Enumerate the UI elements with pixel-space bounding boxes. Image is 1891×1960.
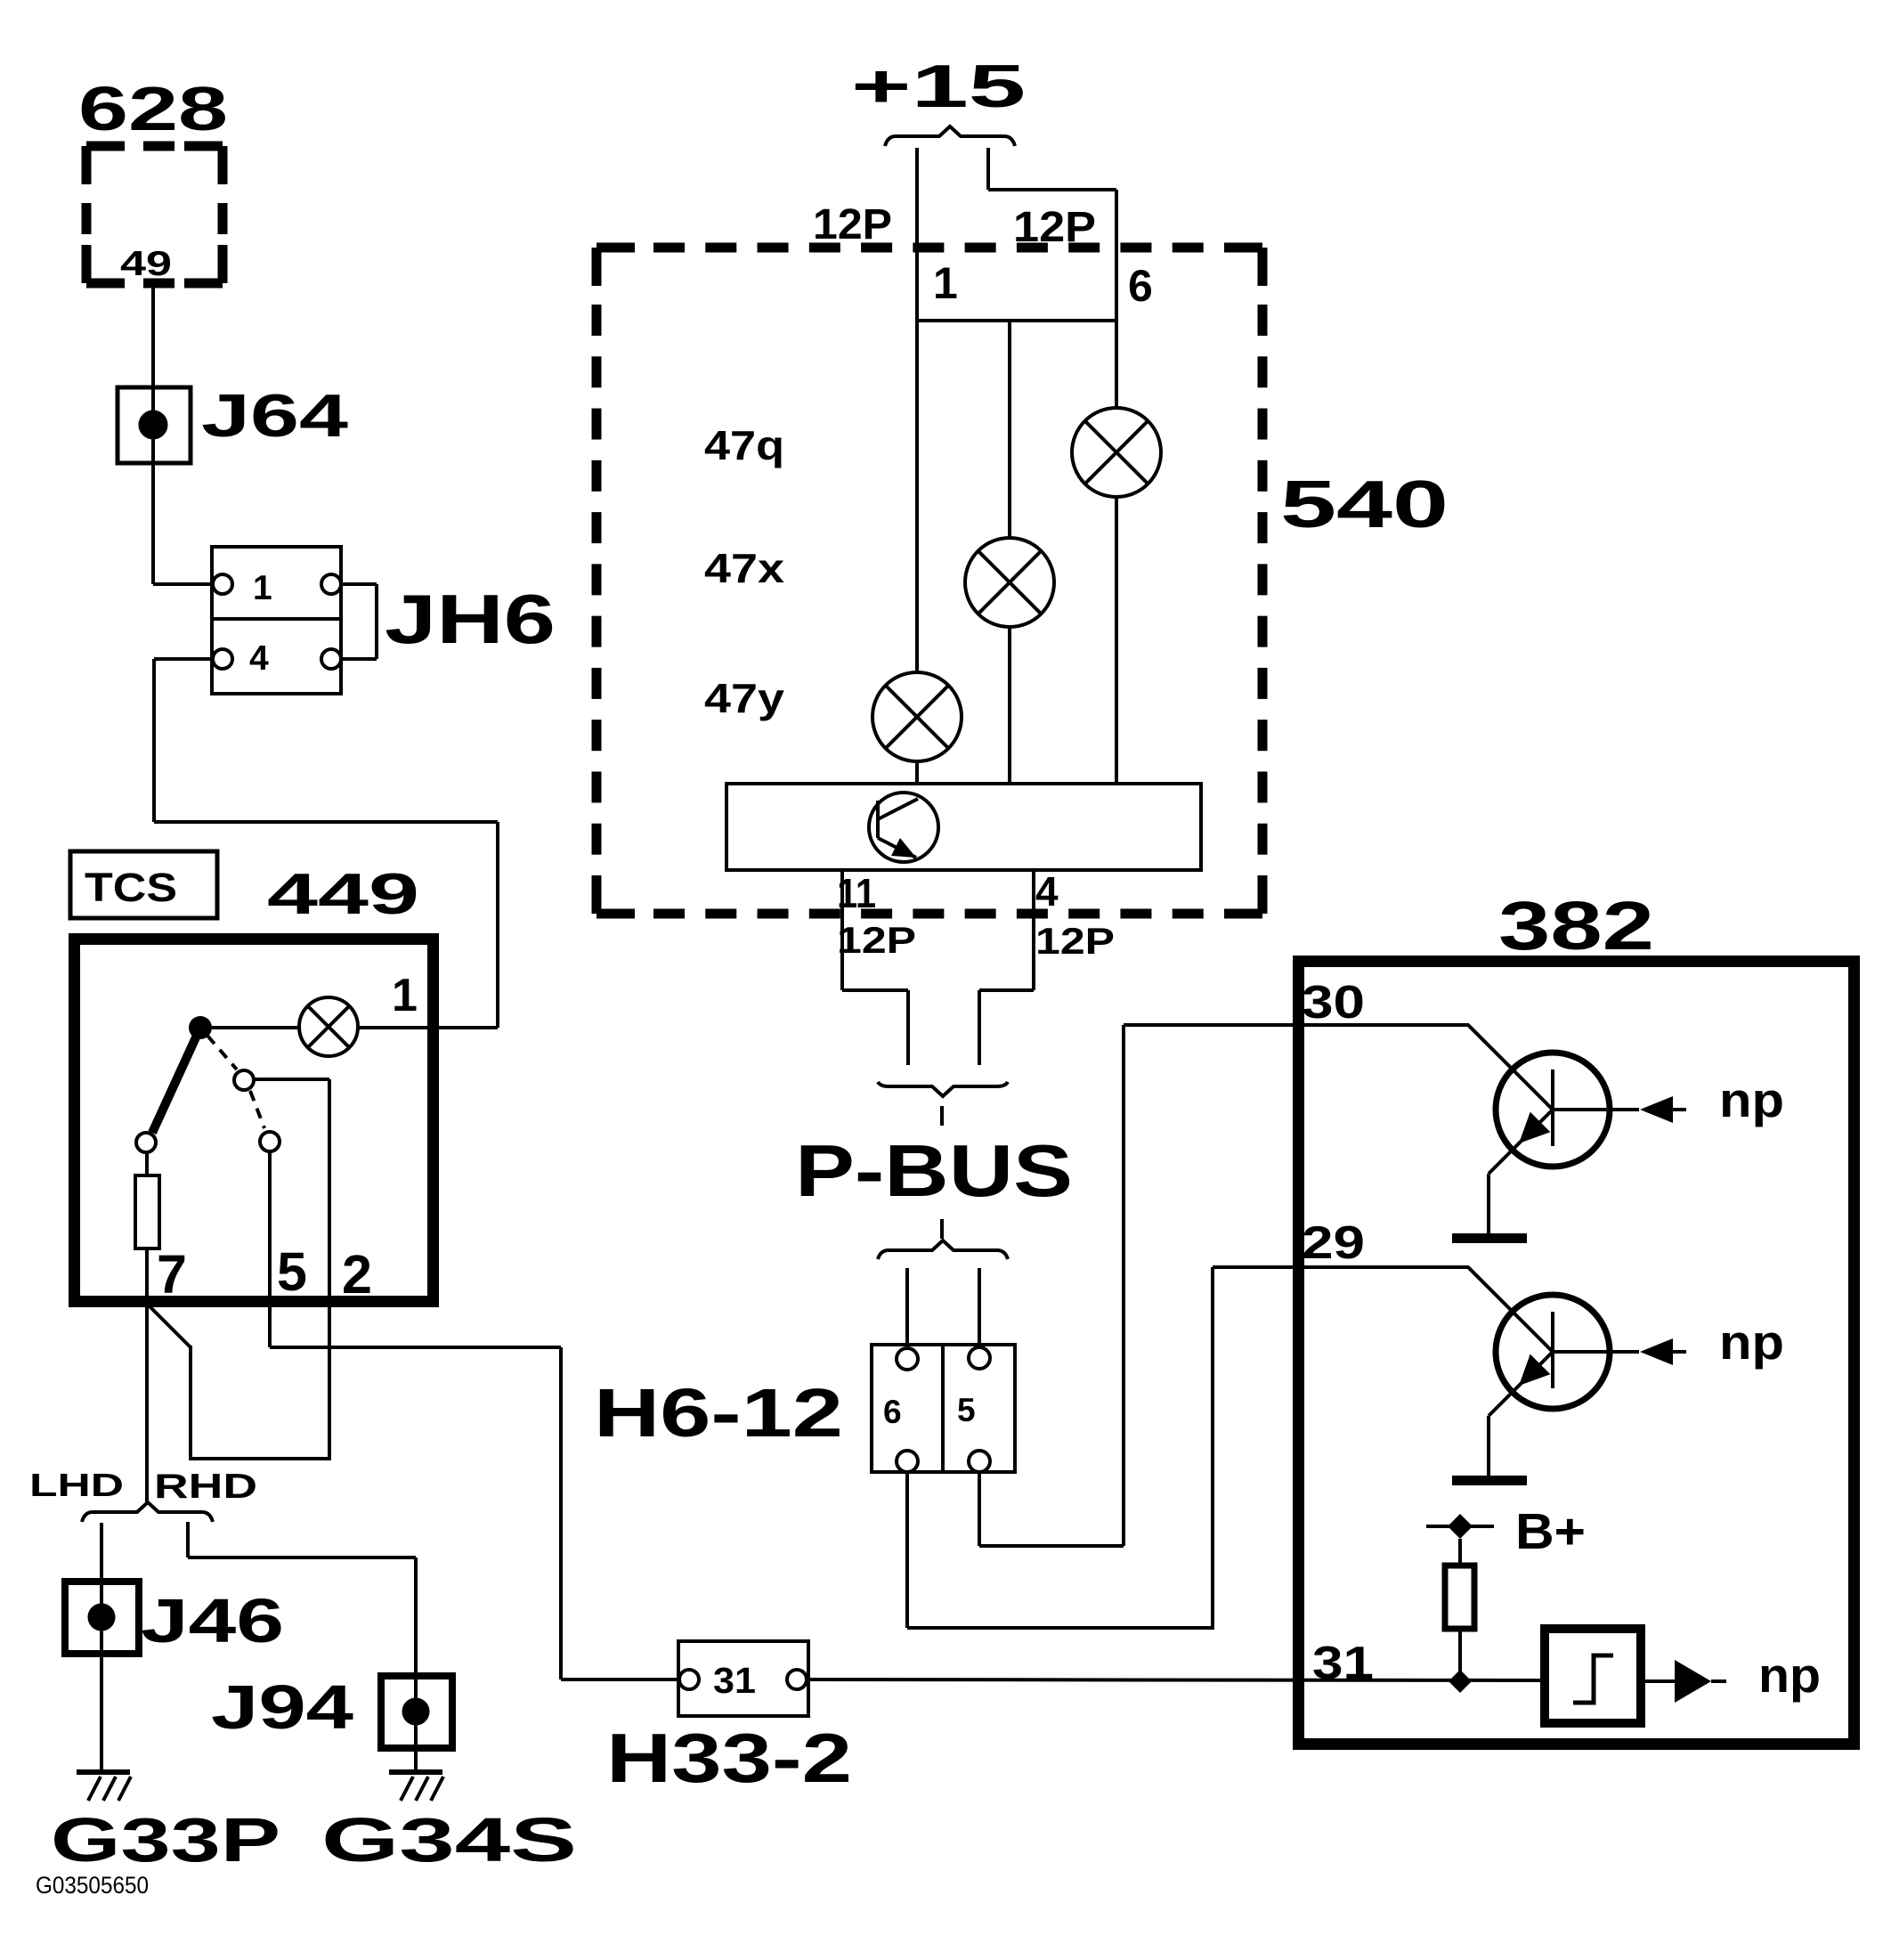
svg-text:5: 5 <box>957 1392 976 1428</box>
svg-text:J64: J64 <box>201 382 348 450</box>
svg-text:30: 30 <box>1302 977 1365 1029</box>
svg-text:1: 1 <box>933 258 958 308</box>
svg-text:47y: 47y <box>704 675 784 721</box>
svg-text:RHD: RHD <box>154 1468 257 1506</box>
svg-text:4: 4 <box>249 639 269 678</box>
svg-text:H33-2: H33-2 <box>606 1719 852 1797</box>
svg-text:12P: 12P <box>837 919 916 961</box>
svg-text:np: np <box>1758 1647 1821 1703</box>
svg-text:np: np <box>1719 1072 1784 1127</box>
svg-text:29: 29 <box>1302 1217 1365 1269</box>
svg-text:6: 6 <box>883 1394 902 1430</box>
svg-text:5: 5 <box>277 1241 307 1302</box>
svg-text:4: 4 <box>1035 868 1059 915</box>
svg-text:G33P: G33P <box>51 1805 280 1875</box>
svg-text:J94: J94 <box>211 1672 353 1742</box>
svg-text:31: 31 <box>713 1660 756 1701</box>
svg-text:TCS: TCS <box>85 865 177 910</box>
svg-text:7: 7 <box>157 1244 187 1305</box>
svg-text:G03505650: G03505650 <box>36 1872 149 1899</box>
svg-text:np: np <box>1719 1314 1784 1370</box>
svg-text:382: 382 <box>1498 888 1654 964</box>
svg-text:11: 11 <box>837 870 876 916</box>
svg-text:J46: J46 <box>141 1586 284 1655</box>
svg-text:47x: 47x <box>704 545 784 591</box>
svg-text:1: 1 <box>392 970 418 1021</box>
svg-text:B+: B+ <box>1515 1503 1586 1560</box>
svg-text:449: 449 <box>267 861 419 926</box>
svg-text:540: 540 <box>1280 467 1449 541</box>
svg-text:628: 628 <box>78 74 228 143</box>
svg-text:12P: 12P <box>1035 920 1115 962</box>
svg-text:1: 1 <box>253 569 272 607</box>
svg-text:47q: 47q <box>704 422 784 468</box>
svg-text:G34S: G34S <box>321 1805 577 1875</box>
svg-text:+15: +15 <box>851 53 1026 120</box>
svg-text:2: 2 <box>342 1244 372 1305</box>
svg-text:P-BUS: P-BUS <box>795 1129 1073 1212</box>
svg-text:6: 6 <box>1128 261 1153 311</box>
svg-text:JH6: JH6 <box>385 580 556 658</box>
svg-text:49: 49 <box>120 245 172 283</box>
svg-text:LHD: LHD <box>29 1467 124 1503</box>
svg-text:31: 31 <box>1312 1638 1374 1689</box>
svg-text:12P: 12P <box>813 201 892 248</box>
svg-text:H6-12: H6-12 <box>594 1375 843 1452</box>
